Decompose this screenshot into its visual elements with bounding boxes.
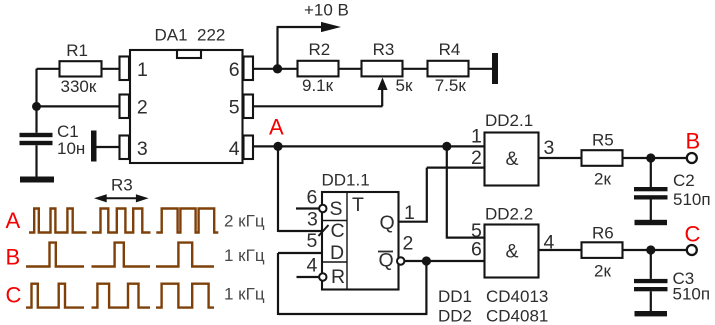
svg-text:&: & [506, 241, 519, 263]
svg-text:510п: 510п [673, 190, 711, 209]
svg-text:2: 2 [137, 97, 148, 119]
svg-text:1: 1 [471, 126, 482, 148]
svg-text:CD4081: CD4081 [486, 307, 548, 325]
svg-text:DD2.2: DD2.2 [485, 205, 533, 224]
svg-text:3: 3 [307, 208, 318, 230]
svg-text:6: 6 [229, 59, 240, 81]
svg-text:C: C [331, 220, 345, 242]
svg-text:1 кГц: 1 кГц [224, 285, 265, 304]
svg-text:DD2: DD2 [438, 307, 472, 325]
svg-text:1 кГц: 1 кГц [224, 246, 265, 265]
svg-text:2: 2 [403, 233, 414, 255]
svg-text:4: 4 [307, 255, 318, 277]
svg-text:S: S [330, 198, 343, 220]
svg-text:7.5к: 7.5к [435, 76, 467, 95]
svg-text:Q: Q [379, 250, 394, 272]
svg-text:R: R [331, 266, 345, 288]
svg-text:C2: C2 [673, 171, 695, 190]
svg-text:6: 6 [307, 187, 318, 209]
svg-text:&: & [506, 148, 519, 170]
svg-text:B: B [686, 129, 701, 154]
svg-text:R1: R1 [66, 41, 88, 60]
svg-text:6: 6 [471, 239, 482, 261]
svg-text:2к: 2к [594, 170, 611, 189]
svg-text:DD2.1: DD2.1 [485, 111, 533, 130]
svg-text:D: D [330, 242, 344, 264]
svg-text:R6: R6 [592, 224, 614, 243]
svg-text:510п: 510п [673, 285, 711, 304]
svg-text:DD1.1: DD1.1 [322, 171, 370, 190]
svg-text:R3: R3 [111, 176, 133, 195]
svg-text:R3: R3 [373, 40, 395, 59]
svg-text:5: 5 [307, 230, 318, 252]
svg-text:A: A [269, 115, 284, 140]
svg-text:DD1: DD1 [438, 287, 472, 306]
svg-text:A: A [6, 208, 21, 233]
svg-text:330к: 330к [61, 77, 97, 96]
svg-text:C: C [6, 283, 22, 308]
svg-text:C: C [685, 222, 701, 247]
svg-text:R5: R5 [592, 131, 614, 150]
svg-text:2 кГц: 2 кГц [224, 212, 265, 231]
svg-text:3: 3 [544, 137, 555, 159]
svg-text:2: 2 [471, 147, 482, 169]
svg-text:2к: 2к [594, 262, 611, 281]
svg-text:B: B [6, 245, 21, 270]
svg-text:Q: Q [380, 212, 395, 234]
svg-text:3: 3 [137, 138, 148, 160]
svg-text:4: 4 [229, 138, 240, 160]
svg-text:R4: R4 [439, 40, 461, 59]
svg-text:1: 1 [404, 202, 415, 224]
svg-text:5к: 5к [396, 76, 413, 95]
svg-text:R2: R2 [309, 40, 331, 59]
svg-text:4: 4 [544, 232, 555, 254]
svg-text:T: T [352, 194, 364, 216]
svg-text:CD4013: CD4013 [486, 287, 548, 306]
svg-text:9.1к: 9.1к [302, 76, 334, 95]
svg-text:5: 5 [229, 97, 240, 119]
svg-text:+10 В: +10 В [304, 1, 349, 20]
svg-text:DA1 222: DA1 222 [155, 26, 226, 45]
svg-text:1: 1 [137, 59, 148, 81]
svg-text:10н: 10н [57, 139, 85, 158]
